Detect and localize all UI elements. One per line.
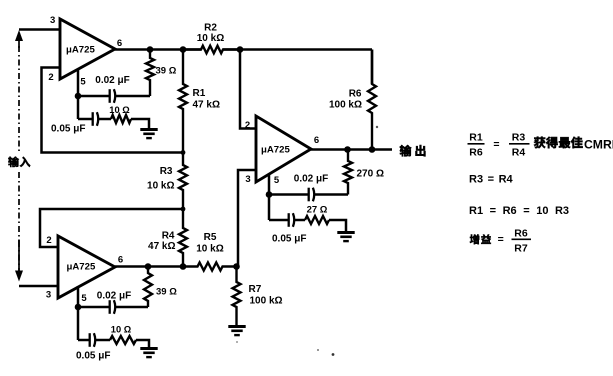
- svg-text:0.02 μF: 0.02 μF: [97, 291, 131, 302]
- svg-text:R6: R6: [514, 228, 528, 240]
- node top rail R1: [180, 46, 187, 53]
- svg-text:3: 3: [245, 174, 250, 185]
- svg-text:R3 = R4: R3 = R4: [469, 174, 514, 186]
- svg-text:10 Ω: 10 Ω: [111, 325, 132, 335]
- wire U3 pin5 down: [268, 195, 271, 221]
- svg-text:μA725: μA725: [261, 145, 290, 156]
- capacitor 0.02uF (U3): [308, 188, 310, 202]
- resistor R7 100k: [233, 267, 241, 327]
- svg-text:47 kΩ: 47 kΩ: [193, 100, 220, 111]
- capacitor 0.05uF (U1): [78, 118, 92, 121]
- svg-text:100 kΩ: 100 kΩ: [250, 296, 283, 307]
- ground U1: [140, 128, 157, 131]
- input label 输入: [8, 157, 19, 167]
- resistor 10ohm (U2): [110, 336, 136, 344]
- svg-text:=: =: [498, 234, 504, 246]
- input dash-dot line lower: [18, 172, 20, 272]
- wire U1 pin5 stub: [77, 69, 80, 96]
- svg-text:R3: R3: [160, 166, 173, 177]
- svg-text:5: 5: [81, 293, 87, 304]
- wire cap line U3: [269, 193, 308, 196]
- svg-text:R7: R7: [249, 284, 262, 295]
- wire to ground U2: [136, 340, 149, 349]
- resistor R6 100k: [368, 50, 376, 150]
- svg-text:2: 2: [245, 120, 250, 131]
- wire U2 pin5 down: [77, 307, 80, 340]
- eq1 text 获得最佳: [534, 137, 545, 148]
- op-amp U1: [60, 19, 115, 79]
- svg-text:100 kΩ: 100 kΩ: [329, 100, 362, 111]
- ground R7: [228, 325, 245, 328]
- svg-text:2: 2: [48, 72, 53, 83]
- resistor 27ohm: [305, 216, 329, 224]
- svg-text:10 Ω: 10 Ω: [109, 105, 130, 115]
- svg-text:47 kΩ: 47 kΩ: [148, 241, 175, 252]
- svg-text:0.05 μF: 0.05 μF: [272, 234, 306, 245]
- svg-text:R4: R4: [162, 231, 175, 242]
- wire top rail corner R6: [371, 50, 374, 85]
- resistor R5 10k: [183, 263, 237, 271]
- svg-text:R6: R6: [349, 89, 362, 100]
- wire cap line U1: [78, 95, 109, 98]
- wire U1 pin2: [42, 68, 184, 153]
- ground U2: [140, 347, 157, 350]
- resistor 39ohm (U2): [144, 267, 152, 308]
- node R5-R7: [233, 263, 240, 270]
- wire U2 output: [115, 265, 183, 268]
- ground U3: [337, 231, 354, 234]
- svg-text:5: 5: [274, 175, 280, 186]
- svg-text:R4: R4: [512, 147, 526, 159]
- svg-text:39 Ω: 39 Ω: [156, 287, 177, 298]
- svg-text:2: 2: [46, 235, 51, 246]
- svg-text:270 Ω: 270 Ω: [357, 169, 384, 180]
- svg-text:R6: R6: [469, 147, 483, 159]
- node top rail to U3 pin2: [237, 46, 244, 53]
- svg-text:10 kΩ: 10 kΩ: [197, 33, 224, 44]
- wire cap line U2: [78, 306, 109, 309]
- svg-text:R1 = R6 = 10 R3: R1 = R6 = 10 R3: [469, 205, 569, 217]
- resistor R1 47k: [179, 50, 187, 153]
- wire U1 pin3 input: [19, 28, 60, 31]
- node R6-output: [369, 146, 376, 153]
- svg-text:0.02 μF: 0.02 μF: [294, 174, 328, 185]
- eq4 label 增益: [470, 234, 479, 244]
- wire U2 pin3 input: [19, 285, 58, 288]
- wire U2 pin5 stub: [77, 286, 80, 307]
- svg-text:6: 6: [117, 38, 122, 49]
- capacitor 0.05uF (U2): [78, 339, 89, 342]
- node U1 pin5: [75, 93, 82, 100]
- svg-text:3: 3: [46, 290, 51, 301]
- node R4-R5 output U2: [180, 263, 187, 270]
- node R3-R4: [181, 207, 186, 212]
- capacitor 0.02uF (U1): [109, 89, 111, 103]
- svg-text:0.05 μF: 0.05 μF: [76, 351, 110, 362]
- svg-text:6: 6: [118, 255, 123, 266]
- node U1 out 39ohm: [147, 46, 154, 53]
- wire U1 pin5 down: [77, 96, 80, 119]
- resistor R3 10k: [179, 153, 187, 210]
- svg-text:μA725: μA725: [66, 45, 95, 56]
- input arrow up: [15, 30, 23, 41]
- input arrow down: [15, 271, 23, 282]
- resistor 39ohm (U1): [146, 50, 154, 97]
- capacitor 0.02uF (U2): [109, 300, 111, 314]
- svg-text:27 Ω: 27 Ω: [307, 205, 328, 216]
- wire to ground U3: [329, 220, 346, 233]
- svg-text:3: 3: [50, 15, 55, 26]
- speck: [317, 349, 319, 351]
- svg-text:R1: R1: [469, 132, 483, 144]
- svg-text:0.02 μF: 0.02 μF: [95, 75, 129, 86]
- node U3 out 270ohm: [344, 146, 351, 153]
- svg-text:10 kΩ: 10 kΩ: [147, 181, 174, 192]
- wire top rail right: [223, 48, 372, 51]
- node U2 out 39ohm: [145, 263, 152, 270]
- svg-text:=: =: [493, 139, 499, 151]
- node R1-R3: [181, 150, 186, 155]
- svg-text:R3: R3: [512, 132, 526, 144]
- wire to ground U1: [131, 119, 149, 130]
- op-amp U3: [256, 116, 311, 182]
- svg-text:39 Ω: 39 Ω: [156, 66, 177, 77]
- wire U3 pin2: [240, 50, 256, 129]
- resistor 10ohm (U1): [111, 115, 131, 123]
- node U2 pin5: [75, 304, 82, 311]
- input dash-dot line upper: [18, 46, 20, 152]
- svg-text:6: 6: [314, 135, 319, 146]
- svg-text:μA725: μA725: [67, 262, 96, 273]
- capacitor 0.05uF (U3): [269, 219, 288, 222]
- wire U1 output to R2: [115, 48, 201, 51]
- wire U2 pin2: [40, 209, 183, 247]
- svg-text:5: 5: [80, 77, 86, 88]
- wire U3 pin5 stub: [268, 174, 271, 195]
- svg-text:0.05 μF: 0.05 μF: [51, 124, 85, 135]
- resistor R4 47k: [179, 209, 187, 267]
- svg-text:CMRR: CMRR: [584, 138, 613, 152]
- svg-text:R1: R1: [193, 88, 206, 99]
- resistor 270ohm: [344, 150, 352, 195]
- svg-text:R2: R2: [204, 23, 217, 34]
- resistor R2 10k: [183, 46, 240, 54]
- svg-text:10 kΩ: 10 kΩ: [196, 244, 223, 255]
- output label 输出: [400, 145, 412, 156]
- op-amp U2: [58, 236, 115, 298]
- wire U3 output: [311, 148, 392, 151]
- svg-text:R5: R5: [204, 232, 217, 243]
- svg-text:R7: R7: [514, 243, 528, 255]
- node U3 pin5: [266, 191, 273, 198]
- wire U3 pin3: [238, 170, 256, 267]
